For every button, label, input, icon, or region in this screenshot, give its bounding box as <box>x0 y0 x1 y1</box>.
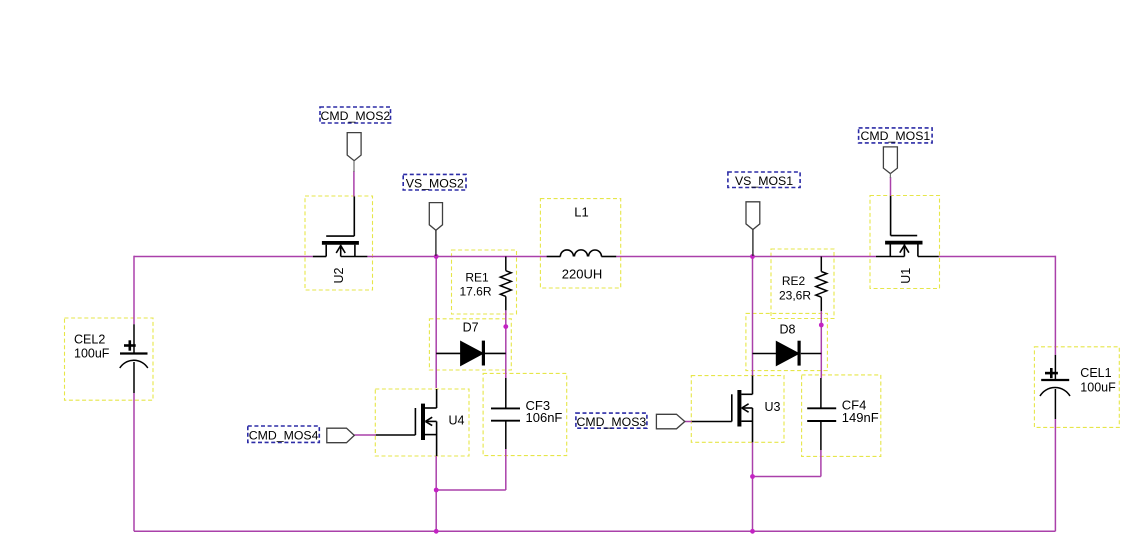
wire CF3 bottom connector horizontal <box>436 489 506 491</box>
label VS_MOS1 <box>728 172 800 188</box>
port CMD_MOS3 (connector pin) <box>656 414 684 429</box>
capacitor CEL2 <box>120 324 148 393</box>
wire left rail lower <box>133 393 135 531</box>
wire CMD_MOS3 port to U3 gate <box>685 421 692 423</box>
node U3 source / CF4 junction <box>750 474 755 479</box>
diode D8 <box>753 341 822 366</box>
svg-text:L1: L1 <box>574 205 588 220</box>
inductor L1 outline <box>540 199 620 288</box>
capacitor CF3 <box>491 378 520 449</box>
svg-text:100uF: 100uF <box>74 347 110 361</box>
svg-text:23,6R: 23,6R <box>779 288 811 302</box>
wire node VS_MOS1 vertical branch <box>752 257 754 376</box>
wire CF4 bottom lead magenta <box>820 450 822 476</box>
svg-text:220UH: 220UH <box>562 267 602 282</box>
wire CF3 bottom lead magenta <box>505 449 507 490</box>
node bottom rail right junction <box>750 529 755 534</box>
node VS_MOS2 junction <box>434 254 439 259</box>
svg-text:VS_MOS1: VS_MOS1 <box>735 174 793 188</box>
svg-text:U2: U2 <box>332 267 346 283</box>
svg-text:CMD_MOS2: CMD_MOS2 <box>321 109 391 123</box>
capacitor CEL1 <box>1040 355 1070 419</box>
diode D8 outline <box>746 313 828 370</box>
node bottom rail left junction <box>434 529 439 534</box>
svg-text:VS_MOS2: VS_MOS2 <box>406 177 464 191</box>
wires (magenta) <box>134 171 1055 531</box>
svg-text:U3: U3 <box>765 400 781 414</box>
wire RE2 bottom to D8 cathode node <box>820 311 822 378</box>
svg-text:D8: D8 <box>780 323 796 337</box>
wire top rail right segment <box>939 256 1056 258</box>
transistor U4 outline <box>375 389 469 456</box>
svg-text:CMD_MOS3: CMD_MOS3 <box>577 415 647 429</box>
label CMD_MOS1 <box>859 128 933 143</box>
node VS_MOS1 junction <box>750 254 755 259</box>
wire U4 source to bottom rail <box>435 456 437 531</box>
transistor U3 <box>692 376 753 443</box>
capacitor CEL2 outline <box>65 318 154 400</box>
svg-text:U1: U1 <box>899 268 913 284</box>
port VS_MOS2 (connector pin) <box>429 203 442 231</box>
transistor U1 outline <box>870 196 940 289</box>
wire CF4 bottom connector horizontal <box>753 476 821 478</box>
diode D7 <box>436 341 506 366</box>
wire CMD_MOS1 port stem <box>890 177 892 196</box>
resistor RE1 <box>500 257 511 311</box>
wire node VS_MOS2 vertical branch <box>435 257 437 389</box>
wire CMD_MOS2 port stem <box>353 171 355 197</box>
transistor U2 outline <box>305 196 373 290</box>
svg-text:100uF: 100uF <box>1080 381 1116 395</box>
label CMD_MOS2 <box>320 107 391 123</box>
capacitor CF4 <box>807 378 836 450</box>
diode D7 outline <box>429 319 511 370</box>
transistor U3 outline <box>691 376 784 443</box>
svg-text:CEL1: CEL1 <box>1080 366 1111 380</box>
wire top rail mid-right segment <box>616 256 876 258</box>
port CMD_MOS2 (connector pin) <box>347 133 361 161</box>
wire top rail left segment <box>134 256 313 258</box>
wire right rail upper <box>1054 256 1056 355</box>
wire top rail mid-left segment <box>367 256 546 258</box>
capacitor CEL1 outline <box>1034 347 1119 428</box>
wire RE1 bottom to D7 cathode node <box>505 310 507 378</box>
inductor L1 <box>547 250 617 257</box>
port CMD_MOS4 (connector pin) <box>327 428 355 443</box>
node RE2/D8 junction <box>819 323 824 328</box>
svg-text:D7: D7 <box>463 321 479 335</box>
resistor RE2 <box>816 257 827 312</box>
svg-text:RE2: RE2 <box>782 274 806 288</box>
resistor RE1 outline <box>452 250 517 314</box>
wire bottom rail <box>134 530 1055 532</box>
svg-text:U4: U4 <box>449 413 465 427</box>
resistor RE2 outline <box>771 249 834 319</box>
svg-text:149nF: 149nF <box>842 410 879 425</box>
wire CMD_MOS4 port to U4 gate <box>354 434 376 436</box>
node RE1/D7 junction <box>503 324 508 329</box>
label CMD_MOS4 <box>248 426 319 442</box>
wire left rail upper <box>133 256 135 325</box>
transistor U4 <box>376 389 437 456</box>
wire CMD_MOS2 pin stub <box>353 161 355 172</box>
svg-text:CEL2: CEL2 <box>74 333 105 347</box>
svg-text:106nF: 106nF <box>526 410 563 425</box>
port CMD_MOS1 (connector pin) <box>883 147 897 174</box>
svg-text:RE1: RE1 <box>465 270 489 284</box>
svg-text:CMD_MOS4: CMD_MOS4 <box>249 428 319 442</box>
node U4 source / CF3 junction <box>434 488 439 493</box>
transistor U1 <box>876 196 939 257</box>
transistor U2 <box>313 197 368 257</box>
label CMD_MOS3 <box>576 413 647 429</box>
component outline boxes (yellow dashed) <box>65 196 1120 457</box>
capacitor CF3 outline <box>483 373 567 455</box>
junction dots <box>434 254 824 534</box>
svg-text:CMD_MOS1: CMD_MOS1 <box>861 129 931 143</box>
label VS_MOS2 <box>403 174 466 190</box>
port VS_MOS1 (connector pin) <box>746 202 760 230</box>
capacitor CF4 outline <box>802 375 881 457</box>
wire VS_MOS1 pin stub <box>752 230 754 257</box>
wire CMD_MOS1 pin stub <box>889 174 891 178</box>
wire VS_MOS2 pin stub <box>435 230 437 256</box>
wire U3 source to bottom rail <box>752 442 754 531</box>
wire right rail lower <box>1054 419 1056 531</box>
svg-text:17.6R: 17.6R <box>459 284 491 298</box>
